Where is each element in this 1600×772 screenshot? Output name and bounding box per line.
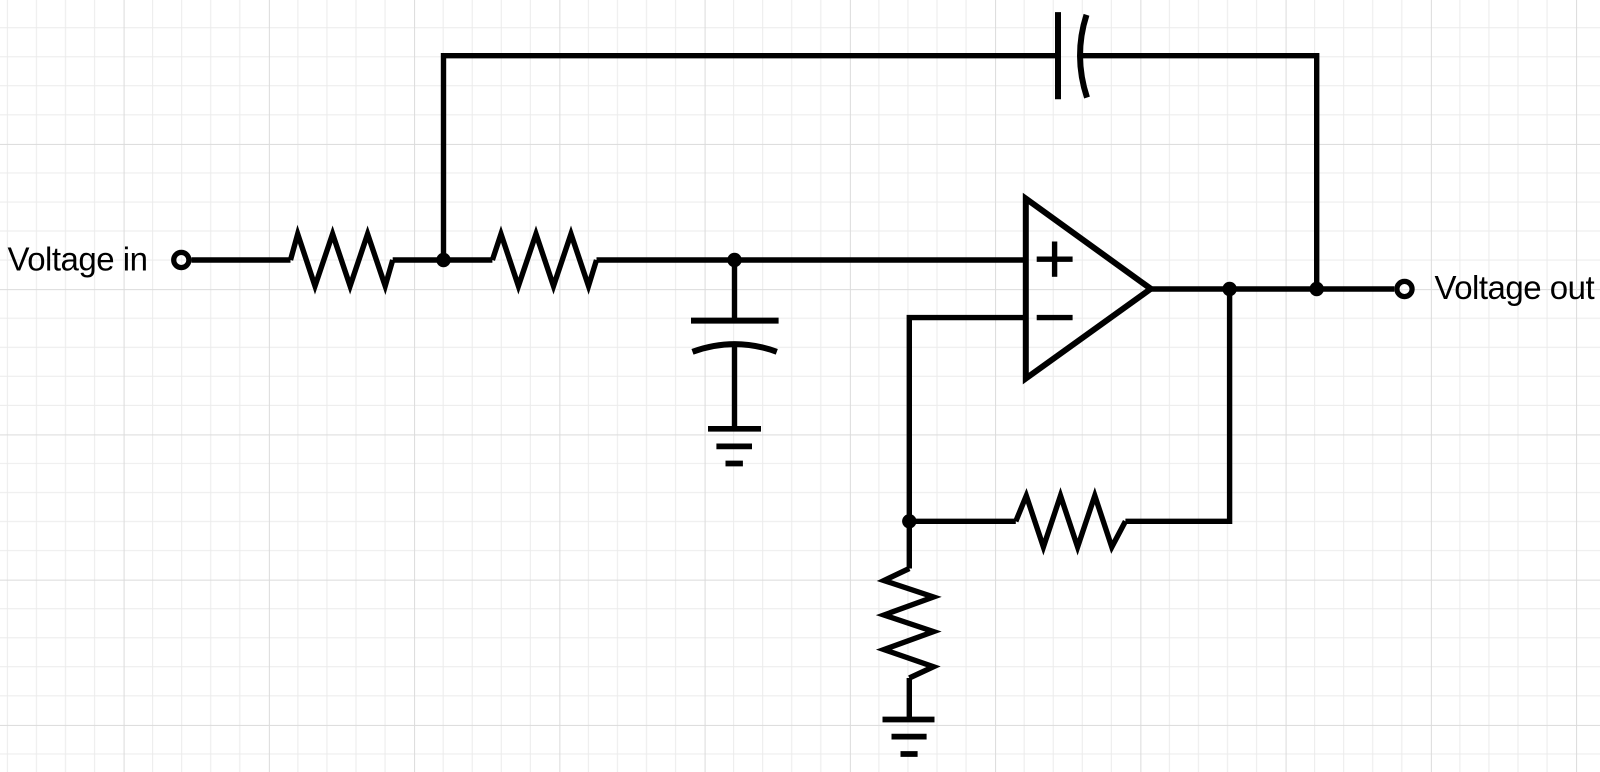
resistor R2 <box>492 234 596 286</box>
wire node B down to C2 <box>732 260 737 321</box>
terminal T2 (output) <box>1397 281 1412 296</box>
resistor R1 <box>291 234 393 286</box>
node A junction dot <box>436 253 450 267</box>
wire op-amp - input left and down to node E <box>909 318 1026 522</box>
op-amp minus sign <box>1037 315 1073 320</box>
ground G1 <box>708 429 761 464</box>
wire op-amp output to terminal <box>1151 286 1395 291</box>
capacitor C1 left plate <box>1055 12 1061 99</box>
capacitor C2 curved plate <box>693 344 777 352</box>
resistor R4 <box>884 569 934 679</box>
resistor R3 <box>1016 496 1126 547</box>
svg-text:Voltage in: Voltage in <box>8 241 148 278</box>
op-amp plus sign <box>1037 242 1073 277</box>
capacitor C2 top plate <box>691 318 779 324</box>
svg-text:Voltage out: Voltage out <box>1435 269 1595 306</box>
node C junction dot <box>1222 282 1236 296</box>
wire input to R1 <box>192 257 291 262</box>
wire R4 to ground <box>907 678 912 720</box>
ground G2 <box>883 720 935 755</box>
wire node C down and left to R3 <box>1125 289 1229 521</box>
op-amp U1 triangle <box>1026 199 1151 379</box>
wire C1 to corner and down to node D <box>1082 56 1317 289</box>
wire node A to R2 <box>444 257 493 262</box>
wire R2 to op-amp + input through node B <box>597 257 1027 262</box>
terminal T1 (input) <box>174 252 189 267</box>
capacitor C1 curved plate <box>1080 15 1087 98</box>
node E junction dot <box>902 514 916 528</box>
wire node E to R3 <box>909 519 1016 524</box>
node D junction dot <box>1310 282 1324 296</box>
wire feedback up from node A <box>444 56 1057 260</box>
node B junction dot <box>727 253 741 267</box>
wire R1 to node A <box>393 257 444 262</box>
wire C2 to ground <box>732 345 737 429</box>
wire node E down to R4 <box>907 521 912 568</box>
